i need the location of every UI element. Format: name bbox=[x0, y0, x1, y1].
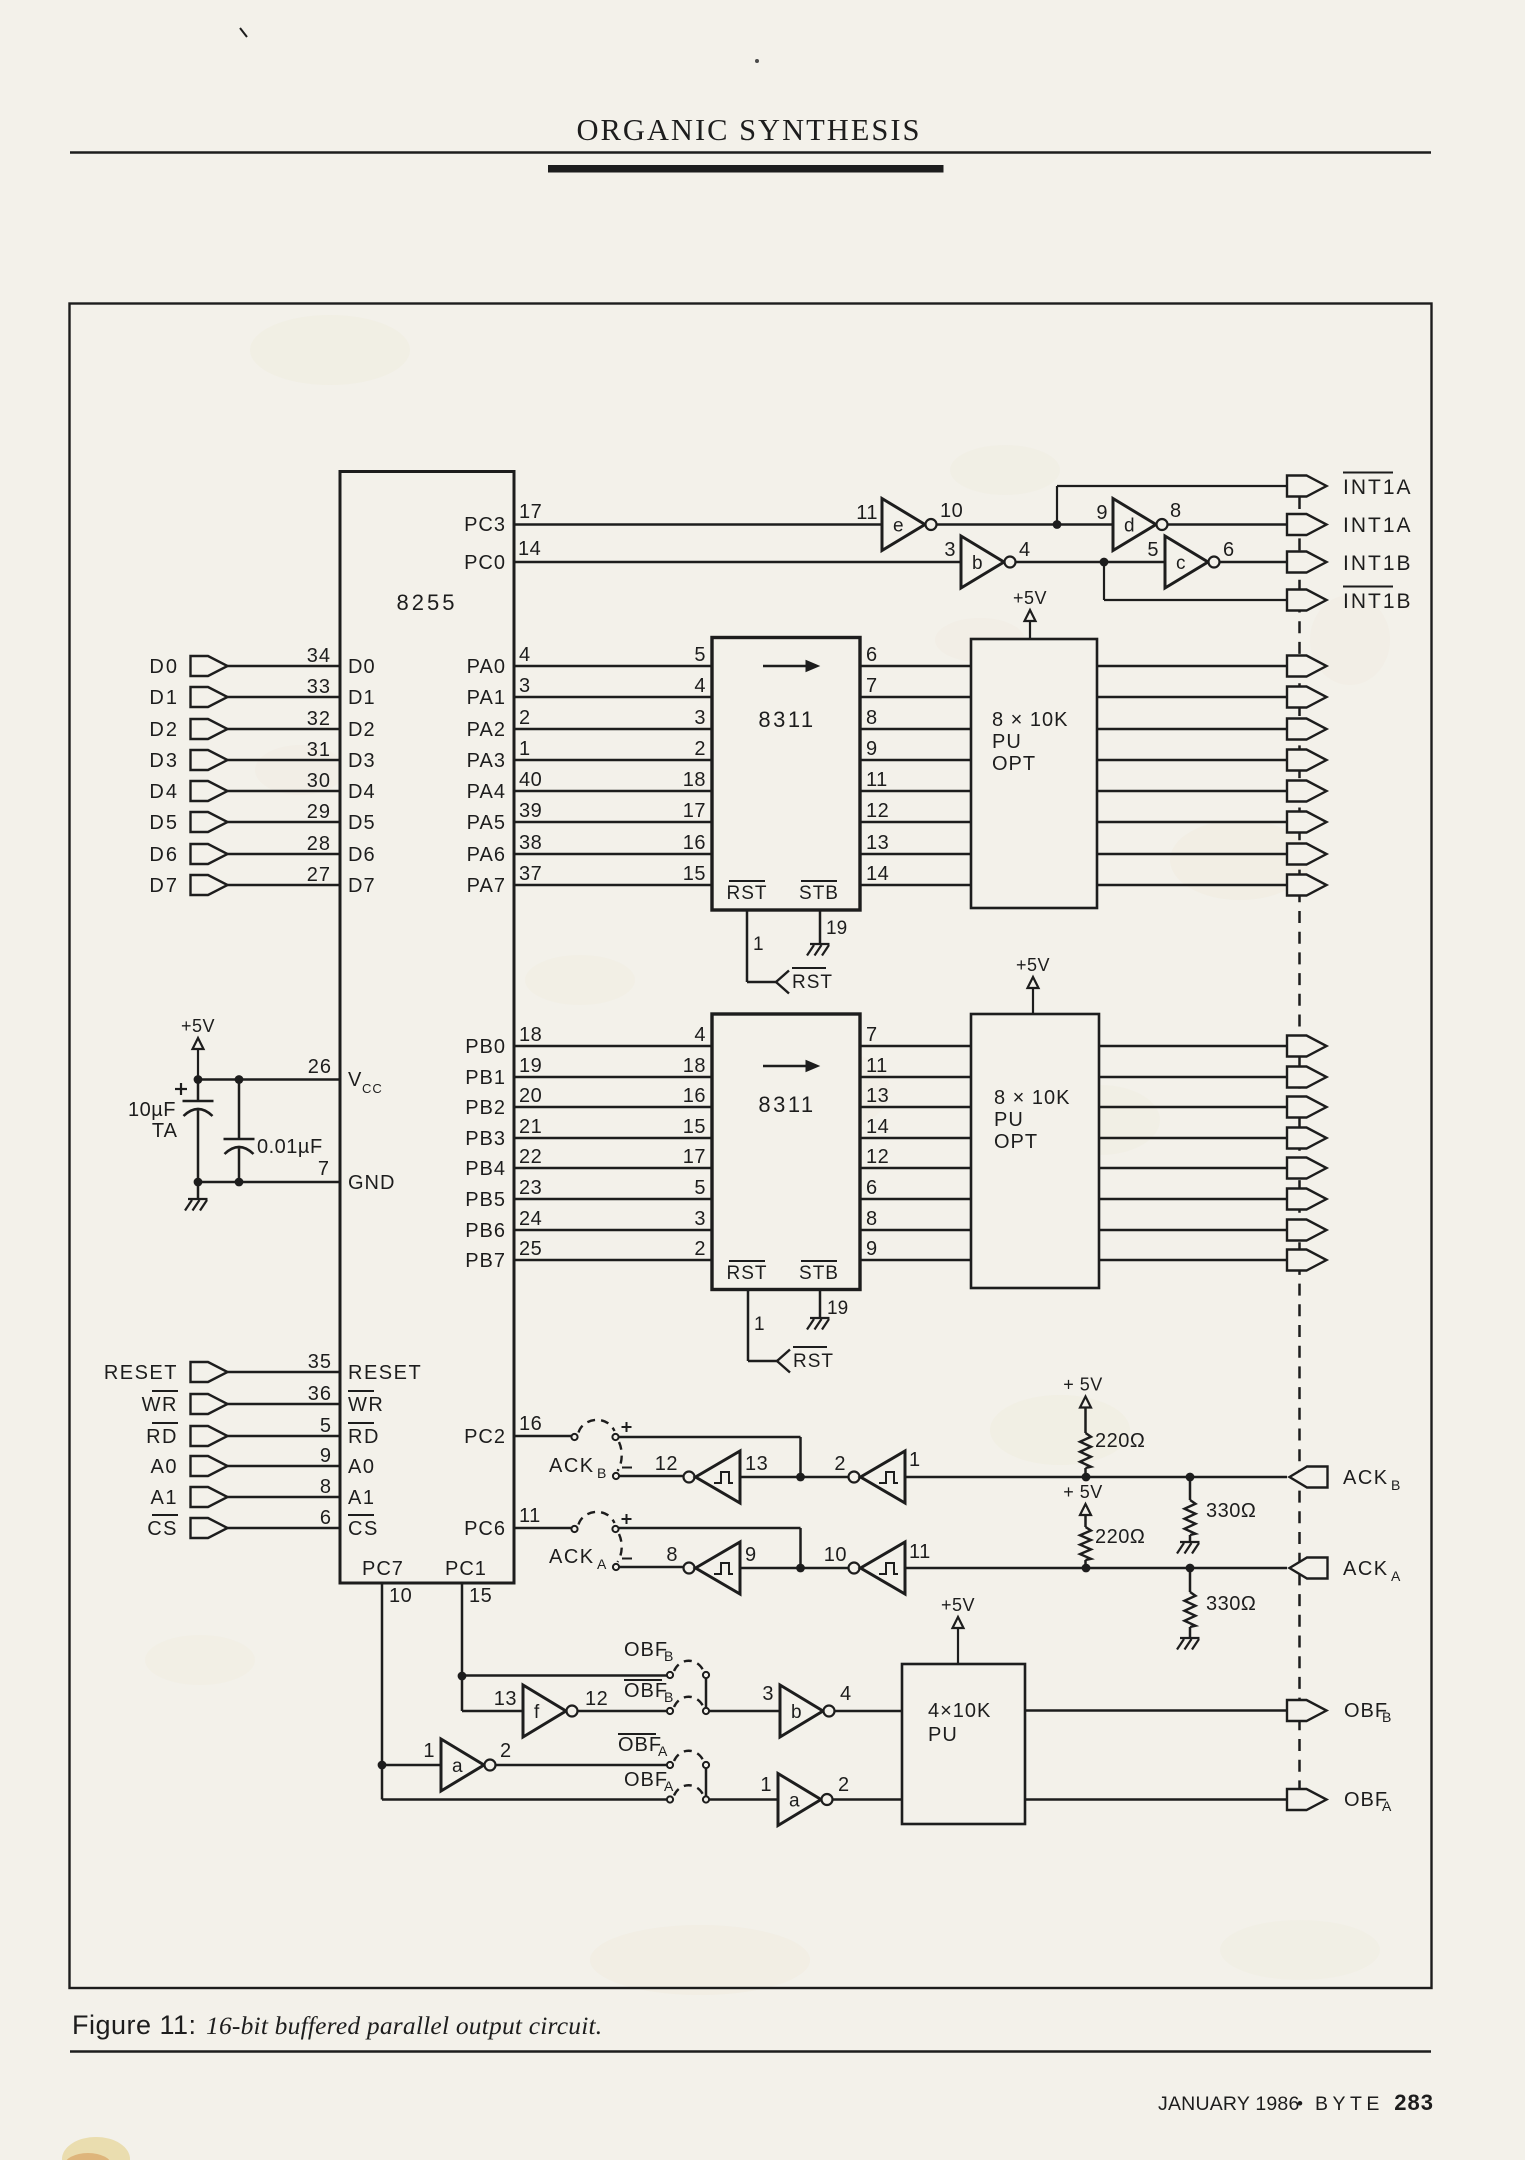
svg-text:PA3: PA3 bbox=[467, 750, 506, 772]
stray mark top left bbox=[240, 28, 247, 37]
svg-text:CC: CC bbox=[362, 1081, 383, 1096]
svg-text:RD: RD bbox=[348, 1426, 380, 1448]
svg-text:4: 4 bbox=[1019, 539, 1031, 561]
wire U3 pin 6 to resistor pack RP2 bbox=[860, 1198, 971, 1201]
wire PC6 to polarity switch S2 bbox=[514, 1527, 572, 1530]
svg-text:11: 11 bbox=[866, 769, 888, 791]
svg-text:19: 19 bbox=[826, 918, 847, 939]
svg-text:CS: CS bbox=[147, 1518, 178, 1540]
schmitt inverter U8 (ACK_A receiver) bbox=[849, 1563, 860, 1574]
IC U1 8255 PPI body bbox=[340, 472, 514, 1584]
svg-text:ACK: ACK bbox=[549, 1546, 595, 1568]
svg-text:19: 19 bbox=[827, 1298, 848, 1319]
svg-text:3: 3 bbox=[762, 1683, 774, 1705]
wire PC1 to inverter f input bbox=[461, 1676, 464, 1711]
switch S1 plus contact bbox=[612, 1434, 618, 1440]
svg-text:e: e bbox=[893, 516, 904, 537]
wire RP3 to OBF_B flag bbox=[1025, 1709, 1287, 1712]
wire D2 to U1 pin 32 bbox=[228, 728, 341, 731]
connector flag INT1B bbox=[1287, 552, 1327, 573]
wire RP1 to port A output flag 2 bbox=[1097, 728, 1287, 731]
svg-text:17: 17 bbox=[683, 800, 706, 822]
figure frame bbox=[70, 304, 1432, 1989]
svg-text:D2: D2 bbox=[348, 719, 376, 741]
svg-text:12: 12 bbox=[585, 1688, 608, 1710]
inverter d bbox=[1113, 499, 1156, 551]
svg-text:D6: D6 bbox=[348, 844, 376, 866]
switch S2 minus mark bbox=[622, 1558, 632, 1560]
wire PB3 to U3 pin 15 bbox=[514, 1137, 712, 1140]
svg-text:B: B bbox=[1391, 1477, 1400, 1493]
svg-text:PA1: PA1 bbox=[467, 687, 506, 709]
wire PC2 to polarity switch S1 bbox=[514, 1435, 572, 1438]
schmitt inverter U7 (ACK_A shaper) bbox=[684, 1563, 695, 1574]
svg-text:PA2: PA2 bbox=[467, 719, 506, 741]
svg-text:b: b bbox=[972, 553, 983, 574]
svg-text:PC1: PC1 bbox=[445, 1558, 487, 1580]
wire U2 pin 14 to resistor pack RP1 bbox=[860, 884, 971, 887]
svg-text:14: 14 bbox=[866, 1116, 889, 1138]
wire inverter d output to INT1A flag bbox=[1168, 523, 1287, 526]
wire D6 to U1 pin 28 bbox=[228, 853, 341, 856]
net label OBF_A-bar bbox=[618, 1733, 656, 1735]
RST net label lower bbox=[793, 1346, 827, 1348]
svg-text:D4: D4 bbox=[149, 781, 179, 803]
wire PA3 to U2 pin 2 bbox=[514, 759, 712, 762]
connector flag port B bit 2 bbox=[1287, 1097, 1327, 1118]
inverter a2 bbox=[778, 1774, 821, 1826]
inverter b2 bbox=[780, 1685, 823, 1737]
wire PC0 net to inverter b bbox=[514, 561, 961, 564]
svg-text:WR: WR bbox=[142, 1394, 178, 1416]
svg-text:11: 11 bbox=[519, 1505, 541, 1527]
svg-text:7: 7 bbox=[866, 1024, 878, 1046]
svg-text:15: 15 bbox=[683, 863, 706, 885]
svg-text:D6: D6 bbox=[149, 844, 179, 866]
junction node R3 / ACK_A bbox=[1082, 1564, 1091, 1573]
svg-text:A1: A1 bbox=[151, 1487, 178, 1509]
svg-text:8: 8 bbox=[866, 707, 878, 729]
svg-text:330Ω: 330Ω bbox=[1206, 1500, 1256, 1522]
wire D4 to U1 pin 30 bbox=[228, 790, 341, 793]
connector flag port A bit 3 bbox=[1287, 750, 1327, 771]
svg-text:1: 1 bbox=[519, 738, 531, 760]
wire inverter b output to inverter c input bbox=[1016, 561, 1165, 564]
wire RP2 to port B output flag 2 bbox=[1099, 1106, 1287, 1109]
wire RP2 to port B output flag 4 bbox=[1099, 1167, 1287, 1170]
svg-text:7: 7 bbox=[866, 675, 878, 697]
net label INT1B-bar bbox=[1343, 586, 1393, 588]
wire OBF_B direct branch to switch S3 bbox=[462, 1674, 667, 1677]
svg-text:A: A bbox=[597, 1556, 607, 1572]
svg-text:OBF: OBF bbox=[624, 1769, 668, 1791]
wire U2 pin 7 to resistor pack RP1 bbox=[860, 696, 971, 699]
svg-text:4×10K: 4×10K bbox=[928, 1700, 991, 1722]
svg-text:8: 8 bbox=[320, 1476, 332, 1498]
svg-text:14: 14 bbox=[518, 538, 541, 560]
junction node R1 / ACK_B bbox=[1082, 1473, 1091, 1482]
wire PA2 to U2 pin 3 bbox=[514, 728, 712, 731]
svg-text:PC0: PC0 bbox=[464, 552, 506, 574]
svg-text:11: 11 bbox=[909, 1541, 931, 1563]
svg-text:OPT: OPT bbox=[994, 1131, 1038, 1153]
wire PB2 to U3 pin 16 bbox=[514, 1106, 712, 1109]
svg-text:283: 283 bbox=[1394, 2090, 1434, 2115]
connector flag port B bit 7 bbox=[1287, 1250, 1327, 1271]
svg-text:OBF: OBF bbox=[624, 1639, 668, 1661]
svg-text:38: 38 bbox=[519, 832, 542, 854]
wire RP2 to port B output flag 6 bbox=[1099, 1229, 1287, 1232]
svg-text:3: 3 bbox=[694, 707, 706, 729]
connector flag port A bit 6 bbox=[1287, 844, 1327, 865]
wire PB1 to U3 pin 18 bbox=[514, 1076, 712, 1079]
svg-text:•: • bbox=[1297, 2094, 1303, 2113]
svg-text:8: 8 bbox=[1170, 500, 1182, 522]
svg-text:8311: 8311 bbox=[758, 1092, 815, 1117]
switch S2 plus contact bbox=[612, 1526, 618, 1532]
svg-text:220Ω: 220Ω bbox=[1095, 1526, 1145, 1548]
ground at U2 pin 19 bbox=[810, 943, 830, 945]
resistor R2 330 ohm bbox=[1189, 1477, 1192, 1500]
svg-text:4: 4 bbox=[519, 644, 531, 666]
svg-text:+5V: +5V bbox=[1013, 588, 1047, 608]
svg-text:15: 15 bbox=[469, 1585, 492, 1607]
connector flag port A bit 4 bbox=[1287, 781, 1327, 802]
svg-text:2: 2 bbox=[694, 1238, 706, 1260]
wire RP2 to port B output flag 5 bbox=[1099, 1198, 1287, 1201]
svg-text:+5V: +5V bbox=[941, 1595, 975, 1615]
wire U2 pin 11 to resistor pack RP1 bbox=[860, 790, 971, 793]
resistor R1 220 ohm bbox=[1084, 1408, 1087, 1433]
svg-text:CS: CS bbox=[348, 1518, 379, 1540]
svg-text:8311: 8311 bbox=[758, 707, 815, 732]
dashed bus line bbox=[1298, 497, 1301, 1790]
svg-text:1: 1 bbox=[909, 1449, 921, 1471]
U2 pin 1 wire to RST net stub bbox=[746, 910, 749, 982]
svg-text:4: 4 bbox=[694, 675, 706, 697]
svg-text:10: 10 bbox=[389, 1585, 412, 1607]
resistor pack RP2 8x10K body bbox=[971, 1014, 1099, 1288]
svg-text:2: 2 bbox=[694, 738, 706, 760]
wire RD to U1 pin 5 bbox=[228, 1435, 341, 1438]
RST net open arrow bbox=[776, 971, 789, 994]
junction node R2 / ACK_B bbox=[1186, 1473, 1195, 1482]
svg-text:16: 16 bbox=[683, 1085, 706, 1107]
svg-text:330Ω: 330Ω bbox=[1206, 1593, 1256, 1615]
wire U3 pin 11 to resistor pack RP2 bbox=[860, 1076, 971, 1079]
svg-text:c: c bbox=[1176, 553, 1186, 574]
svg-text:PA4: PA4 bbox=[467, 781, 506, 803]
wire PB7 to U3 pin 2 bbox=[514, 1259, 712, 1262]
svg-text:13: 13 bbox=[866, 832, 889, 854]
wire U2 pin 6 to resistor pack RP1 bbox=[860, 665, 971, 668]
wire PA0 to U2 pin 5 bbox=[514, 665, 712, 668]
wire D3 to U1 pin 31 bbox=[228, 759, 341, 762]
wire PA5 to U2 pin 17 bbox=[514, 821, 712, 824]
svg-text:12: 12 bbox=[655, 1453, 678, 1475]
svg-text:11: 11 bbox=[866, 1055, 888, 1077]
wire inverter c output to INT1B flag bbox=[1220, 561, 1287, 564]
node RD input flag and label bbox=[152, 1422, 178, 1424]
svg-text:D0: D0 bbox=[149, 656, 179, 678]
wire S2 plus branch to junction bbox=[619, 1527, 801, 1530]
wire PA7 to U2 pin 15 bbox=[514, 884, 712, 887]
wire D0 to U1 pin 34 bbox=[228, 665, 341, 668]
svg-text:9: 9 bbox=[1096, 502, 1108, 524]
svg-text:10: 10 bbox=[824, 1544, 847, 1566]
svg-text:PA5: PA5 bbox=[467, 812, 506, 834]
svg-text:1: 1 bbox=[423, 1740, 435, 1762]
svg-text:D3: D3 bbox=[149, 750, 179, 772]
svg-text:B: B bbox=[597, 1465, 606, 1481]
wire A1 to U1 pin 8 bbox=[228, 1496, 341, 1499]
svg-text:1: 1 bbox=[754, 1314, 765, 1335]
wire junction down to INT1B-bar flag bbox=[1103, 562, 1105, 600]
svg-text:8 × 10K: 8 × 10K bbox=[992, 709, 1069, 731]
wire D1 to U1 pin 33 bbox=[228, 696, 341, 699]
svg-text:13: 13 bbox=[494, 1688, 517, 1710]
connector flag ACK_B bbox=[1290, 1467, 1328, 1488]
connector flag OBF_A bbox=[1287, 1789, 1327, 1810]
inverter e bbox=[882, 499, 925, 551]
svg-text:JANUARY 1986: JANUARY 1986 bbox=[1158, 2093, 1300, 2115]
svg-text:0.01µF: 0.01µF bbox=[257, 1136, 323, 1158]
svg-text:11: 11 bbox=[856, 502, 878, 524]
header rule bbox=[70, 151, 1431, 154]
U2 RST pin label bbox=[729, 880, 765, 882]
svg-text:2: 2 bbox=[838, 1774, 850, 1796]
IC U2 8311 latch body bbox=[712, 638, 860, 911]
wire ground rail to U1 GND pin 7 bbox=[198, 1181, 340, 1184]
wire PB0 to U3 pin 4 bbox=[514, 1045, 712, 1048]
svg-text:13: 13 bbox=[866, 1085, 889, 1107]
switch S3 contacts bbox=[667, 1672, 673, 1678]
svg-text:3: 3 bbox=[944, 539, 956, 561]
wire RESET to U1 pin 35 bbox=[228, 1371, 341, 1374]
wire RP2 to port B output flag 1 bbox=[1099, 1076, 1287, 1079]
svg-text:16-bit buffered parallel outpu: 16-bit buffered parallel output circuit. bbox=[206, 2011, 602, 2040]
svg-text:31: 31 bbox=[307, 739, 331, 761]
capacitor C1 10uF TA bbox=[197, 1080, 200, 1102]
svg-text:OPT: OPT bbox=[992, 753, 1036, 775]
U3 pin 19 wire to ground bbox=[819, 1290, 822, 1319]
switch S1 dashed throw arcs bbox=[579, 1420, 615, 1433]
net label INT1A-bar bbox=[1343, 472, 1393, 474]
svg-text:18: 18 bbox=[683, 769, 706, 791]
U3 STB pin label bbox=[801, 1260, 837, 1262]
svg-text:RESET: RESET bbox=[348, 1362, 422, 1384]
svg-text:PC7: PC7 bbox=[362, 1558, 404, 1580]
junction node ACK_A branch bbox=[796, 1564, 805, 1573]
svg-text:17: 17 bbox=[683, 1146, 706, 1168]
resistor R4 330 ohm bbox=[1189, 1568, 1192, 1592]
switch S3 dashed arcs bbox=[674, 1661, 703, 1671]
svg-text:RD: RD bbox=[146, 1426, 178, 1448]
svg-text:ORGANIC SYNTHESIS: ORGANIC SYNTHESIS bbox=[577, 113, 922, 147]
wire +5V rail to U1 VCC pin 26 bbox=[198, 1078, 340, 1081]
svg-text:1: 1 bbox=[753, 934, 764, 955]
svg-text:6: 6 bbox=[1223, 539, 1235, 561]
svg-text:3: 3 bbox=[694, 1208, 706, 1230]
wire RP1 to port A output flag 3 bbox=[1097, 759, 1287, 762]
header black bar bbox=[548, 165, 944, 173]
svg-text:7: 7 bbox=[318, 1158, 330, 1180]
svg-text:13: 13 bbox=[745, 1453, 768, 1475]
svg-text:18: 18 bbox=[683, 1055, 706, 1077]
svg-text:PC2: PC2 bbox=[464, 1426, 506, 1448]
svg-text:8: 8 bbox=[666, 1544, 678, 1566]
junction node +5V rail bbox=[194, 1075, 203, 1084]
wire RP1 to port A output flag 7 bbox=[1097, 884, 1287, 887]
svg-text:4: 4 bbox=[694, 1024, 706, 1046]
wire U2 pin 8 to resistor pack RP1 bbox=[860, 728, 971, 731]
inverter a1 bbox=[441, 1739, 484, 1791]
connector flag port A bit 7 bbox=[1287, 875, 1327, 896]
svg-text:8255: 8255 bbox=[397, 590, 458, 615]
svg-text:34: 34 bbox=[307, 645, 331, 667]
wire S1 minus branch to inverter U5 output bbox=[619, 1475, 684, 1478]
svg-text:A: A bbox=[658, 1743, 668, 1759]
svg-text:b: b bbox=[791, 1702, 802, 1723]
U3 RST pin label bbox=[729, 1260, 765, 1262]
wire S4 to inverter a2 input bbox=[709, 1798, 778, 1801]
svg-text:5: 5 bbox=[694, 1177, 706, 1199]
svg-text:23: 23 bbox=[519, 1177, 542, 1199]
svg-text:22: 22 bbox=[519, 1146, 542, 1168]
wire RP2 to port B output flag 0 bbox=[1099, 1045, 1287, 1048]
svg-text:PB5: PB5 bbox=[465, 1189, 506, 1211]
wire U3 pin 14 to resistor pack RP2 bbox=[860, 1137, 971, 1140]
ground at U3 pin 19 bbox=[810, 1317, 830, 1319]
wire PC1 down to OBF_B junction bbox=[461, 1583, 464, 1676]
node CS input flag and label bbox=[152, 1514, 178, 1516]
svg-text:25: 25 bbox=[519, 1238, 542, 1260]
connector flag ACK_A bbox=[1290, 1558, 1328, 1579]
svg-text:8 × 10K: 8 × 10K bbox=[994, 1087, 1071, 1109]
svg-text:PB7: PB7 bbox=[465, 1250, 506, 1272]
junction node PC7 / OBF_A bbox=[378, 1761, 387, 1770]
svg-text:9: 9 bbox=[866, 738, 878, 760]
connector flag port A bit 1 bbox=[1287, 687, 1327, 708]
junction node on INT1B net bbox=[1100, 558, 1109, 567]
wire RP1 to port A output flag 4 bbox=[1097, 790, 1287, 793]
svg-text:5: 5 bbox=[1147, 539, 1159, 561]
svg-text:PB3: PB3 bbox=[465, 1128, 506, 1150]
svg-text:OBF: OBF bbox=[624, 1680, 668, 1702]
svg-text:12: 12 bbox=[866, 800, 889, 822]
U2 STB pin label bbox=[801, 880, 837, 882]
wire U2 pin 13 to resistor pack RP1 bbox=[860, 853, 971, 856]
svg-text:+5V: +5V bbox=[1016, 955, 1050, 975]
connector flag INT1A bbox=[1287, 514, 1327, 535]
switch S1 minus mark bbox=[622, 1467, 632, 1469]
junction node 0.01uF top bbox=[235, 1075, 244, 1084]
wire RP2 to port B output flag 7 bbox=[1099, 1259, 1287, 1262]
switch S1 common contact bbox=[571, 1434, 577, 1440]
connector flag port B bit 1 bbox=[1287, 1067, 1327, 1088]
svg-text:28: 28 bbox=[307, 833, 331, 855]
svg-text:33: 33 bbox=[307, 676, 331, 698]
svg-text:B: B bbox=[1382, 1709, 1391, 1725]
svg-text:27: 27 bbox=[307, 864, 331, 886]
wire PB4 to U3 pin 17 bbox=[514, 1167, 712, 1170]
svg-text:A: A bbox=[664, 1778, 674, 1794]
U1 pin label WR bbox=[348, 1390, 374, 1392]
connector flag port A bit 5 bbox=[1287, 812, 1327, 833]
net label OBF_B-bar bbox=[624, 1679, 662, 1681]
switch S2 minus contact bbox=[613, 1564, 619, 1570]
svg-text:37: 37 bbox=[519, 863, 542, 885]
connector flag port A bit 2 bbox=[1287, 719, 1327, 740]
wire PB6 to U3 pin 3 bbox=[514, 1229, 712, 1232]
junction node on INT1A net bbox=[1053, 520, 1062, 529]
svg-text:D1: D1 bbox=[149, 687, 179, 709]
svg-text:1: 1 bbox=[760, 1774, 772, 1796]
wire CS to U1 pin 6 bbox=[228, 1527, 341, 1530]
connector flag port B bit 4 bbox=[1287, 1158, 1327, 1179]
svg-text:3: 3 bbox=[519, 675, 531, 697]
svg-text:D7: D7 bbox=[149, 875, 179, 897]
ground at R4 bbox=[1180, 1637, 1200, 1639]
U2 pin 19 wire to ground bbox=[819, 910, 822, 944]
connector flag INT1A-bar bbox=[1287, 476, 1327, 497]
wire RP1 to port A output flag 1 bbox=[1097, 696, 1287, 699]
svg-text:16: 16 bbox=[683, 832, 706, 854]
ground at decoupling rail bbox=[197, 1182, 200, 1199]
junction node 0.01uF bottom bbox=[235, 1178, 244, 1187]
svg-text:D5: D5 bbox=[348, 812, 376, 834]
svg-text:14: 14 bbox=[866, 863, 889, 885]
svg-text:30: 30 bbox=[307, 770, 331, 792]
wire junction up to INT1A-bar flag bbox=[1056, 486, 1058, 525]
svg-text:INT1B: INT1B bbox=[1343, 590, 1413, 613]
svg-text:Figure 11:: Figure 11: bbox=[72, 2010, 197, 2040]
wire U3 pin 13 to resistor pack RP2 bbox=[860, 1106, 971, 1109]
svg-text:RST: RST bbox=[793, 1351, 834, 1372]
junction node ground rail bbox=[194, 1178, 203, 1187]
svg-text:OBF: OBF bbox=[618, 1734, 662, 1756]
switch S4 contacts bbox=[667, 1762, 673, 1768]
resistor pack RP1 8x10K body bbox=[971, 639, 1097, 908]
U1 pin label RD bbox=[348, 1422, 374, 1424]
svg-text:4: 4 bbox=[840, 1683, 852, 1705]
svg-text:220Ω: 220Ω bbox=[1095, 1430, 1145, 1452]
connector flag port B bit 6 bbox=[1287, 1220, 1327, 1241]
wire PA1 to U2 pin 4 bbox=[514, 696, 712, 699]
svg-text:PU: PU bbox=[928, 1724, 958, 1746]
svg-text:d: d bbox=[1124, 516, 1135, 537]
wire U3 pin 12 to resistor pack RP2 bbox=[860, 1167, 971, 1170]
wire D5 to U1 pin 29 bbox=[228, 821, 341, 824]
svg-text:WR: WR bbox=[348, 1394, 384, 1416]
svg-text:PU: PU bbox=[994, 1109, 1024, 1131]
svg-text:10µF: 10µF bbox=[128, 1099, 176, 1121]
ground at R2 bbox=[1180, 1541, 1200, 1543]
svg-text:PC3: PC3 bbox=[464, 514, 506, 536]
wire S3 to inverter b2 input bbox=[709, 1710, 780, 1713]
svg-text:ACK: ACK bbox=[1343, 1558, 1389, 1580]
wire RP1 to port A output flag 6 bbox=[1097, 853, 1287, 856]
svg-text:PB1: PB1 bbox=[465, 1067, 506, 1089]
caption rule bbox=[70, 2050, 1431, 2053]
svg-text:29: 29 bbox=[307, 801, 331, 823]
svg-text:RST: RST bbox=[727, 883, 768, 904]
IC U3 8311 latch body bbox=[712, 1014, 860, 1290]
wire S1 plus branch to junction bbox=[619, 1436, 801, 1439]
svg-text:9: 9 bbox=[745, 1544, 757, 1566]
wire U3 pin 8 to resistor pack RP2 bbox=[860, 1229, 971, 1232]
wire U3 pin 9 to resistor pack RP2 bbox=[860, 1259, 971, 1262]
